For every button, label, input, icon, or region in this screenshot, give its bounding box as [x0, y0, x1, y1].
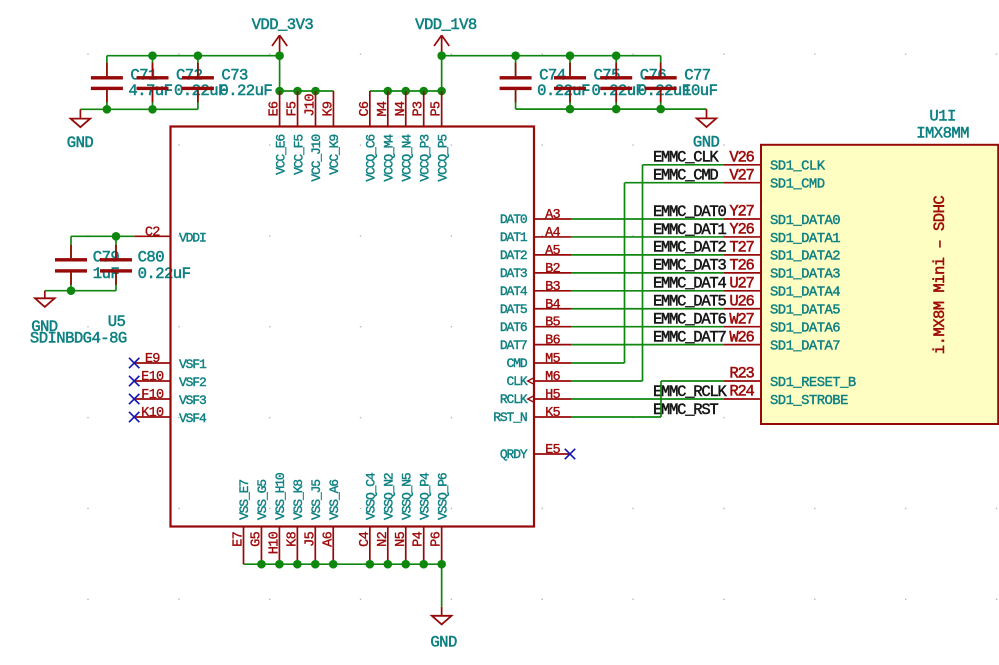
svg-text:DAT5: DAT5 — [500, 302, 527, 317]
svg-text:VSSQ_P6: VSSQ_P6 — [435, 473, 450, 520]
svg-text:GND: GND — [430, 633, 457, 651]
svg-text:EMMC_RCLK: EMMC_RCLK — [653, 383, 727, 401]
svg-text:VSF4: VSF4 — [179, 411, 207, 426]
svg-text:T27: T27 — [729, 239, 754, 257]
svg-text:R23: R23 — [729, 365, 754, 383]
svg-text:GND: GND — [67, 134, 94, 152]
svg-text:CMD: CMD — [507, 356, 528, 371]
svg-text:C2: C2 — [145, 225, 160, 240]
svg-text:EMMC_DAT0: EMMC_DAT0 — [653, 203, 726, 221]
svg-text:DAT1: DAT1 — [500, 230, 528, 245]
svg-text:EMMC_DAT2: EMMC_DAT2 — [653, 239, 726, 257]
svg-text:VSF1: VSF1 — [179, 357, 207, 372]
svg-text:V27: V27 — [729, 166, 754, 184]
svg-text:EMMC_DAT7: EMMC_DAT7 — [653, 328, 726, 346]
svg-text:i.MX8M Mini – SDHC: i.MX8M Mini – SDHC — [931, 196, 949, 355]
svg-text:SD1_DATA2: SD1_DATA2 — [770, 249, 840, 265]
svg-text:VSF3: VSF3 — [179, 393, 206, 408]
svg-text:SD1_RESET_B: SD1_RESET_B — [770, 375, 856, 391]
svg-text:VSS_G5: VSS_G5 — [255, 480, 270, 520]
svg-text:EMMC_CLK: EMMC_CLK — [653, 149, 719, 167]
svg-text:B2: B2 — [545, 262, 560, 277]
svg-text:EMMC_DAT1: EMMC_DAT1 — [653, 221, 726, 239]
svg-text:DAT6: DAT6 — [500, 320, 527, 335]
svg-text:VCCQ_C6: VCCQ_C6 — [364, 135, 379, 182]
svg-text:SD1_DATA1: SD1_DATA1 — [770, 231, 840, 247]
svg-text:Y27: Y27 — [729, 203, 754, 221]
svg-text:B3: B3 — [545, 280, 560, 295]
svg-text:U1I: U1I — [929, 107, 955, 125]
svg-text:K5: K5 — [545, 406, 560, 421]
svg-text:0.22uF: 0.22uF — [138, 265, 191, 283]
svg-text:F10: F10 — [141, 388, 164, 403]
svg-text:SD1_DATA3: SD1_DATA3 — [770, 267, 840, 283]
svg-text:RCLK: RCLK — [500, 392, 528, 407]
svg-text:W26: W26 — [729, 328, 754, 346]
svg-text:IMX8MM: IMX8MM — [916, 124, 969, 142]
svg-text:DAT4: DAT4 — [500, 284, 528, 299]
svg-text:0.22uF: 0.22uF — [537, 82, 590, 100]
svg-text:0.22uF: 0.22uF — [592, 82, 645, 100]
svg-text:T26: T26 — [729, 256, 754, 274]
svg-text:M5: M5 — [545, 352, 560, 367]
svg-text:E9: E9 — [145, 352, 160, 367]
svg-text:B4: B4 — [545, 298, 560, 313]
svg-text:VDDI: VDDI — [179, 231, 206, 246]
svg-text:10uF: 10uF — [682, 82, 717, 100]
svg-text:VSS_H10: VSS_H10 — [273, 473, 288, 520]
svg-text:CLK: CLK — [507, 374, 528, 389]
svg-text:SD1_CMD: SD1_CMD — [770, 177, 825, 193]
svg-text:SD1_DATA0: SD1_DATA0 — [770, 213, 840, 229]
svg-text:EMMC_DAT5: EMMC_DAT5 — [653, 293, 726, 311]
svg-text:VDD_1V8: VDD_1V8 — [415, 16, 477, 34]
svg-text:U26: U26 — [729, 292, 754, 310]
svg-text:E5: E5 — [545, 443, 560, 458]
svg-text:VCCQ_N4: VCCQ_N4 — [399, 134, 414, 182]
svg-text:R24: R24 — [729, 383, 754, 401]
svg-text:VDD_3V3: VDD_3V3 — [252, 16, 314, 34]
svg-text:EMMC_DAT6: EMMC_DAT6 — [653, 311, 726, 329]
svg-text:VCCQ_M4: VCCQ_M4 — [382, 134, 397, 182]
svg-text:U5: U5 — [108, 313, 126, 331]
svg-text:SD1_CLK: SD1_CLK — [770, 159, 826, 175]
svg-text:K10: K10 — [141, 406, 164, 421]
svg-text:VSS_E7: VSS_E7 — [237, 480, 252, 520]
svg-text:VCC_J10: VCC_J10 — [309, 135, 324, 182]
svg-text:VCCQ_P5: VCCQ_P5 — [435, 135, 450, 182]
svg-text:SD1_DATA5: SD1_DATA5 — [770, 303, 840, 319]
svg-text:VSSQ_C4: VSSQ_C4 — [364, 472, 379, 520]
svg-text:C80: C80 — [138, 248, 165, 266]
svg-text:SD1_DATA4: SD1_DATA4 — [770, 285, 840, 301]
svg-text:EMMC_DAT4: EMMC_DAT4 — [653, 275, 726, 293]
svg-text:RST_N: RST_N — [493, 410, 527, 425]
svg-text:VSSQ_P4: VSSQ_P4 — [417, 472, 432, 520]
svg-text:DAT0: DAT0 — [500, 212, 527, 227]
svg-text:VCC_F5: VCC_F5 — [291, 135, 306, 175]
svg-text:B6: B6 — [545, 334, 560, 349]
svg-text:SD1_DATA6: SD1_DATA6 — [770, 321, 840, 337]
svg-text:DAT7: DAT7 — [500, 338, 527, 353]
svg-text:VSSQ_N2: VSSQ_N2 — [382, 473, 397, 520]
svg-text:VSF2: VSF2 — [179, 375, 206, 390]
svg-text:U27: U27 — [729, 274, 754, 292]
svg-text:VSS_A6: VSS_A6 — [327, 480, 342, 520]
svg-text:H5: H5 — [545, 388, 560, 403]
svg-text:DAT3: DAT3 — [500, 266, 527, 281]
svg-text:SD1_DATA7: SD1_DATA7 — [770, 338, 840, 354]
svg-text:VSS_K8: VSS_K8 — [291, 480, 306, 520]
svg-text:SDINBDG4-8G: SDINBDG4-8G — [30, 330, 127, 348]
svg-text:VSSQ_N5: VSSQ_N5 — [399, 473, 414, 520]
svg-text:VCCQ_P3: VCCQ_P3 — [417, 135, 432, 182]
svg-text:4.7uF: 4.7uF — [128, 82, 172, 100]
svg-text:Y26: Y26 — [729, 221, 754, 239]
svg-text:VSS_J5: VSS_J5 — [309, 480, 324, 520]
svg-text:A5: A5 — [545, 244, 560, 259]
svg-text:EMMC_DAT3: EMMC_DAT3 — [653, 257, 726, 275]
svg-text:QRDY: QRDY — [500, 447, 528, 462]
svg-text:VCC_E6: VCC_E6 — [273, 135, 288, 175]
svg-text:0.22uF: 0.22uF — [219, 82, 272, 100]
svg-text:M6: M6 — [545, 370, 560, 385]
svg-text:A3: A3 — [545, 208, 560, 223]
svg-text:V26: V26 — [729, 148, 754, 166]
svg-text:EMMC_CMD: EMMC_CMD — [653, 167, 718, 185]
svg-text:SD1_STROBE: SD1_STROBE — [770, 393, 848, 409]
svg-text:DAT2: DAT2 — [500, 248, 527, 263]
svg-text:E10: E10 — [141, 370, 164, 385]
svg-text:B5: B5 — [545, 316, 560, 331]
svg-text:EMMC_RST: EMMC_RST — [653, 401, 718, 419]
svg-text:VCC_K9: VCC_K9 — [327, 135, 342, 175]
svg-text:A4: A4 — [545, 226, 560, 241]
svg-text:W27: W27 — [729, 310, 754, 328]
